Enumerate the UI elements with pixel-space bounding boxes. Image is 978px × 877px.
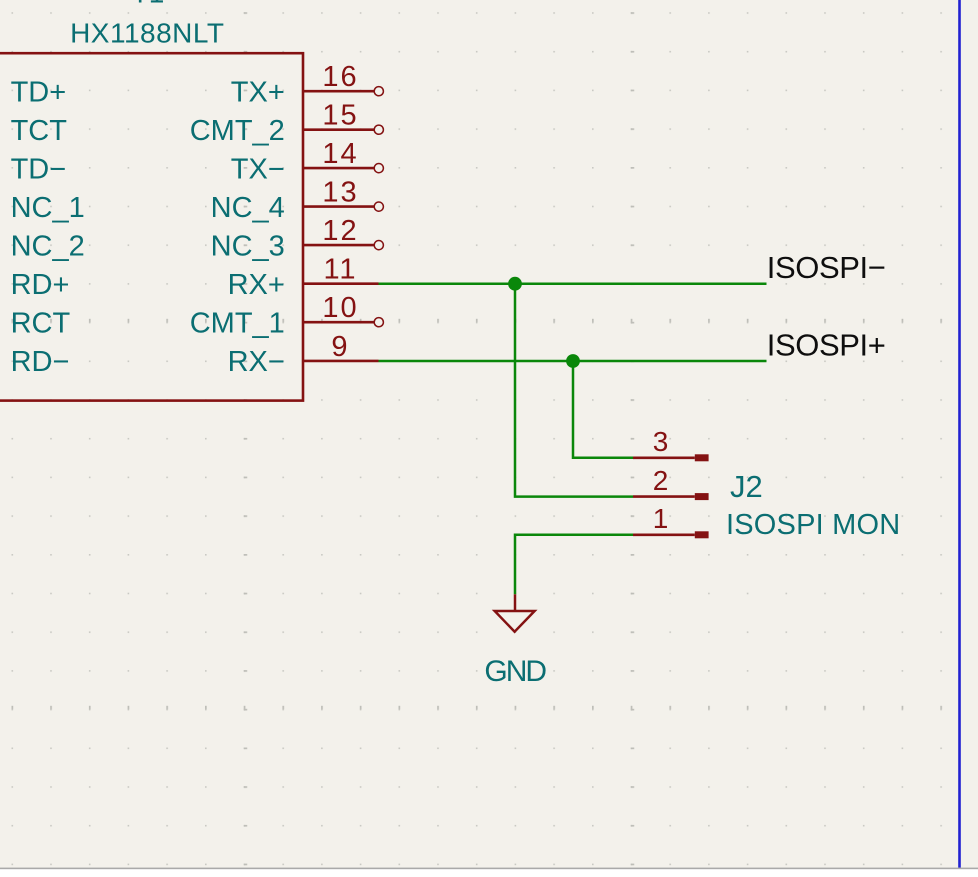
svg-text:CMT_2: CMT_2 — [190, 115, 285, 147]
junction on ISOSPI+ — [566, 354, 580, 368]
junction on ISOSPI- — [508, 277, 522, 291]
svg-text:9: 9 — [331, 331, 349, 363]
wire ISOSPI- — [379, 282, 767, 285]
wire ISOSPI+ — [379, 360, 767, 363]
pin name RD- — [11, 346, 70, 378]
wire junction to J2 pin 2 — [515, 284, 633, 497]
wire junction to J2 pin 3 — [573, 361, 633, 458]
pin 15 CMT_2 — [190, 100, 384, 147]
transformer T1 body — [0, 53, 303, 400]
svg-text:TD−: TD− — [11, 153, 67, 185]
svg-text:ISOSPI+: ISOSPI+ — [767, 328, 886, 363]
svg-text:ISOSPI MON: ISOSPI MON — [726, 509, 900, 541]
power symbol GND — [495, 594, 535, 631]
reference T1 — [132, 0, 165, 9]
svg-text:10: 10 — [322, 292, 358, 324]
svg-text:14: 14 — [322, 138, 358, 170]
pin 11 RX+ — [228, 254, 379, 301]
svg-text:TD+: TD+ — [11, 76, 67, 108]
svg-text:NC_3: NC_3 — [211, 230, 285, 262]
svg-text:GND: GND — [484, 655, 546, 688]
svg-text:1: 1 — [653, 503, 669, 534]
svg-text:HX1188NLT: HX1188NLT — [70, 17, 224, 48]
pin 16 TX+ — [231, 61, 384, 108]
svg-text:15: 15 — [322, 100, 358, 132]
reference J2 — [730, 469, 763, 504]
svg-text:RD−: RD− — [11, 346, 70, 378]
pin name NC_1 — [11, 192, 85, 224]
svg-text:16: 16 — [322, 61, 358, 93]
svg-text:3: 3 — [653, 426, 669, 457]
pin 12 NC_3 — [211, 215, 384, 262]
connector J2 pin 3 — [633, 426, 709, 461]
svg-text:NC_4: NC_4 — [211, 192, 285, 224]
svg-text:ISOSPI−: ISOSPI− — [767, 250, 886, 285]
svg-text:NC_2: NC_2 — [11, 230, 85, 262]
svg-text:RX−: RX− — [228, 346, 285, 378]
pin name TD+ — [11, 76, 67, 108]
value HX1188NLT — [70, 17, 224, 48]
svg-text:2: 2 — [653, 465, 669, 496]
connector J2 pin 2 — [633, 465, 709, 500]
svg-text:12: 12 — [322, 215, 358, 247]
label ISOSPI+ — [767, 328, 886, 363]
pin 10 CMT_1 — [190, 292, 384, 339]
svg-text:RCT: RCT — [11, 307, 71, 339]
pin name RD+ — [11, 269, 70, 301]
svg-text:13: 13 — [322, 177, 358, 209]
pin 13 NC_4 — [211, 177, 384, 224]
wire J2 pin 1 to GND — [515, 535, 633, 595]
pin name TD- — [11, 153, 67, 185]
svg-text:RD+: RD+ — [11, 269, 70, 301]
pin 9 RX- — [228, 331, 379, 378]
connector J2 pin 1 — [633, 503, 709, 538]
value GND — [484, 655, 546, 688]
svg-text:NC_1: NC_1 — [11, 192, 85, 224]
svg-text:TX+: TX+ — [231, 76, 285, 108]
svg-text:T1: T1 — [132, 0, 165, 9]
svg-text:11: 11 — [323, 254, 357, 286]
svg-text:CMT_1: CMT_1 — [190, 307, 285, 339]
pin 14 TX- — [231, 138, 384, 185]
label ISOSPI- — [767, 250, 886, 285]
pin name NC_2 — [11, 230, 85, 262]
pin name RCT — [11, 307, 71, 339]
value ISOSPI MON — [726, 509, 900, 541]
svg-text:TCT: TCT — [11, 115, 68, 147]
svg-text:TX−: TX− — [231, 153, 285, 185]
pin name TCT — [11, 115, 68, 147]
svg-text:J2: J2 — [730, 469, 763, 504]
svg-text:RX+: RX+ — [228, 269, 285, 301]
